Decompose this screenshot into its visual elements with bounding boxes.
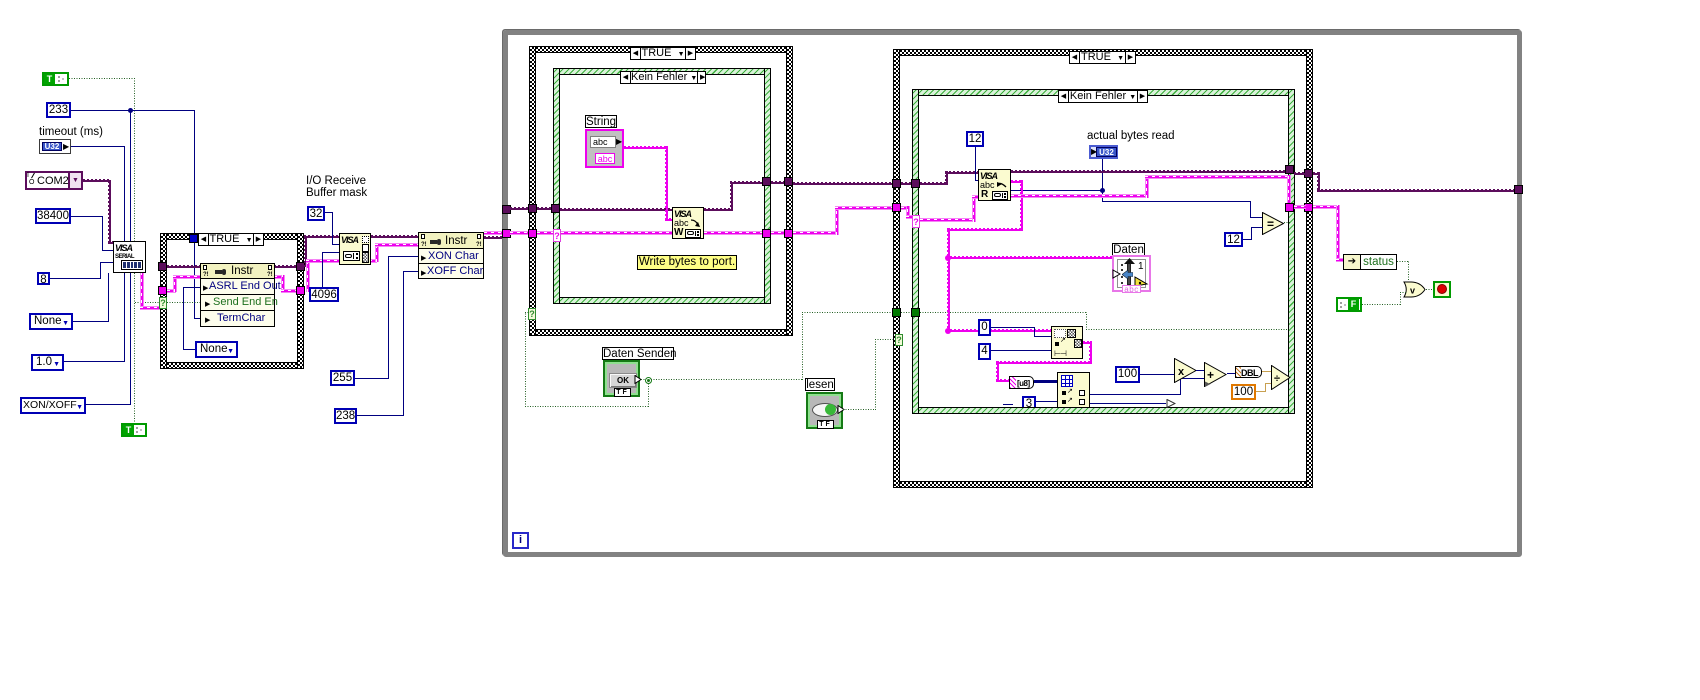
tunnel VISA purple right (case A): [296, 262, 305, 271]
wire boolean to case1 selector: [648, 380, 649, 407]
numeric constant 12 (bytes to read): [966, 131, 984, 147]
VISA Read icon: [978, 169, 1011, 201]
VISA Configure Serial Port icon: [113, 241, 146, 273]
tunnel VISA purple left (case A): [158, 262, 167, 271]
wire error case2 border to green2 selector: [901, 206, 910, 210]
label lesen: [805, 378, 835, 391]
ring constant 1.0 (stop bits): [31, 354, 64, 371]
tunnel purple green1 right: [762, 177, 771, 186]
comment label Write bytes to port.: [637, 255, 737, 270]
svg-text:=: =: [1267, 217, 1274, 231]
green case 1 selector label Kein Fehler: [620, 71, 706, 84]
wire index array output 1: [1090, 394, 1181, 395]
junction dot boolean: [645, 377, 652, 384]
wire boolean inside green2 (long dotted): [920, 312, 1087, 313]
wire boolean lesen to case2 selector: [843, 409, 876, 410]
case 1 selector terminal ?: [528, 308, 536, 320]
wire error loop border to case 1: [510, 231, 530, 235]
label timeout (ms): [39, 126, 103, 138]
wire status to OR gate: [1397, 261, 1409, 262]
wire error between right tunnels: [1294, 205, 1306, 209]
wire boolean between case2 tunnels: [901, 312, 911, 313]
label actual bytes read: [1087, 130, 1175, 142]
indicator terminal Daten (string array): [1112, 255, 1151, 292]
property node Instr (serial settings): [200, 263, 275, 279]
string subset icon: [1051, 326, 1083, 359]
tunnel purple case2 left: [892, 179, 901, 188]
label Daten: [1112, 243, 1145, 256]
tunnel boolean green2 left: [911, 308, 920, 317]
case structure 2 (TRUE) border: [893, 49, 1313, 56]
tunnel purple green1 left: [551, 204, 560, 213]
indicator terminal U32 (actual bytes read): [1089, 145, 1118, 159]
wire error right of VISA Write: [704, 231, 764, 235]
wire boolean dotted from TRUE const: [69, 78, 135, 79]
control terminal U32 timeout: [39, 139, 71, 154]
numeric constant 8: [37, 272, 50, 285]
numeric constant 4: [978, 343, 991, 360]
wire purple case2 out to loop border: [1294, 172, 1306, 175]
svg-text:▶: ▶: [1205, 381, 1211, 387]
error case structure 2 (Kein Fehler) green border: [912, 89, 1295, 96]
boolean constant FALSE: [1336, 297, 1362, 312]
numeric constant 100 (orange DBL): [1231, 384, 1256, 400]
wire OR gate to stop button: [1426, 289, 1433, 290]
wire error case1 to case2 (step up): [793, 231, 839, 235]
wire U32 indicator down to byte-count wire: [1102, 159, 1103, 191]
tunnel error case2 right: [1304, 203, 1313, 212]
numeric constant 4096: [309, 287, 339, 302]
unbundle by name: status: [1343, 254, 1397, 270]
wire boolean Daten Senden: [641, 379, 649, 380]
wire 233 branch down (behind VISA serial): [130, 110, 131, 241]
wire pink to string subset: [950, 329, 1051, 332]
divide node: [1271, 365, 1291, 390]
wire purple case1 border to green1: [537, 207, 553, 210]
wire 4096: [322, 253, 323, 287]
multiply node x: [1174, 358, 1197, 383]
wire purple VISA Read out: [1011, 170, 1286, 173]
wire error case1 border to green1: [537, 231, 554, 235]
wire purple case1 to case2: [793, 182, 893, 185]
wire 12 to VISA Read: [975, 147, 976, 181]
boolean OK button terminal (Daten Senden): [603, 360, 640, 397]
wire 255 to XON Char: [355, 378, 389, 379]
case structure 1 (TRUE) border: [529, 46, 793, 53]
tunnel error on loop left border: [502, 229, 511, 238]
label String: [585, 115, 617, 128]
numeric constant 100 (blue): [1115, 366, 1140, 383]
wire XON/XOFF: [85, 404, 131, 405]
wire error case2 out to status: [1313, 205, 1339, 209]
wire None to ASRL End Out: [183, 287, 200, 288]
wire 38400: [71, 216, 102, 217]
ring constant XON/XOFF: [20, 397, 86, 414]
ring constant None (inside case A): [195, 341, 238, 358]
tunnel blue (233 into case A): [189, 234, 198, 243]
property row XOFF Char: [418, 264, 484, 279]
tunnel error green2 right: [1285, 203, 1294, 212]
numeric constant 0: [978, 319, 991, 336]
wire VISA purple buffer VI to property node 2: [371, 235, 419, 238]
wire 12 to equals: [1243, 239, 1252, 240]
svg-text:+: +: [1207, 368, 1214, 382]
numeric constant 38400: [35, 208, 71, 224]
tunnel VISA purple case1 left: [528, 204, 537, 213]
string control terminal: [585, 129, 624, 168]
error wire VISA serial out: [140, 273, 144, 310]
tunnel purple case1 right: [784, 177, 793, 186]
wire 4 to subset length: [991, 350, 1051, 351]
error selector ? on green1 left: [553, 229, 561, 242]
case structure A (TRUE) border: [160, 233, 304, 240]
VISA resource constant COM2: [25, 171, 83, 190]
error selector ? on green2 left: [912, 215, 920, 228]
wire pink subset output: [1083, 341, 1092, 344]
wire 8: [50, 278, 100, 279]
wire error case A to buffer-size VI (passes behind icon): [306, 261, 310, 292]
junction dot on 233 wire: [128, 108, 133, 113]
wire bytes-read out of VISA Read: [1011, 190, 1103, 191]
wire error green1 to case1 right: [771, 231, 785, 235]
wire orange 100 to divide: [1256, 391, 1266, 392]
wire boolean to case2 tunnel: [651, 379, 803, 380]
index array icon: [1057, 372, 1090, 408]
property row TermChar: [200, 311, 275, 327]
wire 32: [325, 212, 332, 213]
wire 100 to multiply: [1140, 374, 1174, 375]
wire U32 timeout: [71, 146, 125, 147]
tunnel error case2 left: [892, 203, 901, 212]
case A selector terminal ?: [159, 297, 167, 309]
svg-text:v: v: [1410, 286, 1415, 296]
wire multiply to add: [1196, 370, 1205, 371]
wire purple green1 to case1 right: [771, 181, 785, 184]
wire error node2 to loop border: [484, 231, 502, 235]
wire purple VISA Write out: [704, 208, 733, 211]
tunnel error green1 right: [762, 229, 771, 238]
wire pink to Daten indicator: [950, 256, 1114, 259]
numeric constant 238: [334, 408, 357, 424]
tunnel purple green2 left: [911, 179, 920, 188]
tunnel purple green2 right: [1285, 165, 1294, 174]
boolean LED terminal (lesen): [806, 392, 843, 429]
wire error VISA Read out: [1011, 194, 1148, 198]
wire string to VISA Write: [624, 146, 668, 149]
svg-text:x: x: [1178, 366, 1185, 378]
wire u8 array thick: [1034, 380, 1058, 383]
wire purple inside green1 to VISA Write: [560, 208, 673, 211]
property row ASRL End Out: [200, 279, 275, 295]
boolean constant TRUE (top): [42, 72, 69, 86]
stop button terminal: [1433, 281, 1451, 298]
wire VISA purple loop border to case 1: [510, 207, 530, 210]
wire selector dotted to Send End En: [167, 302, 201, 303]
case 2 selector terminal ?: [895, 334, 903, 346]
wire 238 to XOFF Char: [357, 415, 404, 416]
property node 2 Instr (XON/XOFF chars): [418, 232, 484, 249]
case A selector label TRUE: [198, 233, 264, 246]
wire index array output 2 (truncated with arrow): [1090, 403, 1166, 404]
tunnel error case1 right: [784, 229, 793, 238]
stub wire left of clipped constant: [1003, 404, 1013, 405]
wire error inside green1 (left of VISA Write): [561, 231, 673, 235]
wire purple case2 border to green2: [901, 182, 911, 185]
svg-text:÷: ÷: [1274, 373, 1280, 385]
tunnel error case1 left: [528, 229, 537, 238]
wire None: [73, 321, 108, 322]
wire to index array row2: [1036, 401, 1057, 402]
property row Send End En: [200, 295, 275, 311]
tunnel purple case2 right: [1304, 169, 1313, 178]
numeric constant 32: [307, 206, 325, 221]
boolean constant TRUE (bottom): [121, 423, 147, 437]
while loop border: [503, 30, 1522, 557]
wire FALSE to OR gate: [1362, 304, 1401, 305]
wire 233 to case A: [71, 110, 194, 111]
wire VISA purple inside case A: [167, 265, 201, 268]
case 1 selector label TRUE: [630, 47, 696, 60]
wire VISA purple case A to buffer-size VI: [304, 237, 307, 267]
green case 2 selector label Kein Fehler: [1058, 90, 1148, 103]
numeric constant 255: [330, 370, 355, 386]
property row XON Char: [418, 249, 484, 264]
OR gate: [1403, 281, 1426, 298]
wire VISA purple node2 to loop border: [484, 236, 502, 239]
wire add to DBL: [1227, 373, 1235, 374]
add node +: [1204, 362, 1227, 387]
wire read-buffer (pink) out of VISA Read: [1011, 180, 1023, 183]
numeric constant (clipped by border): [1022, 396, 1036, 410]
ring constant None (parity): [29, 313, 73, 330]
VISA Set I/O Buffer Size icon: [339, 233, 371, 265]
VISA Write icon: [672, 207, 704, 239]
wire bytes-read to equals: [1102, 190, 1103, 202]
to-double conversion DBL: [1235, 366, 1262, 378]
numeric constant 12 (compare): [1224, 232, 1243, 247]
loop iteration terminal i: [512, 532, 529, 549]
junction dot pink (to Daten): [945, 255, 951, 261]
tunnel purple loop right border: [1514, 185, 1523, 194]
wire DBL to divide (orange): [1262, 371, 1271, 372]
wire 233 inside case A to TermChar: [194, 243, 195, 319]
tunnel VISA purple on loop left border: [502, 205, 511, 214]
equals node =: [1262, 212, 1285, 235]
junction dot bytes-read: [1100, 188, 1105, 193]
tunnel error right (case A): [296, 286, 305, 295]
tunnel error left (case A): [158, 286, 167, 295]
green border patch over clipped constant: [1014, 407, 1044, 414]
tunnel boolean case2 left: [892, 308, 901, 317]
wire VISA COM2 to serial config: [83, 179, 110, 182]
wire 1.0: [64, 361, 125, 362]
error case structure 1 (Kein Fehler) green border: [553, 68, 771, 75]
case 2 selector label TRUE: [1069, 51, 1136, 64]
wire equals output dotted: [1284, 222, 1290, 223]
numeric constant 233: [46, 102, 71, 118]
label I/O Receive Buffer mask: [306, 175, 367, 199]
junction dot pink (to subset): [945, 328, 951, 334]
string to byte array conversion [u8]: [1009, 376, 1034, 389]
wire error green2 selector to VISA Read: [920, 218, 975, 222]
wire 0 to subset offset: [991, 327, 1035, 328]
wire purple inside green2 to VISA Read: [920, 182, 948, 185]
wire error inside case A: [167, 289, 176, 293]
label Daten Senden: [602, 347, 674, 360]
